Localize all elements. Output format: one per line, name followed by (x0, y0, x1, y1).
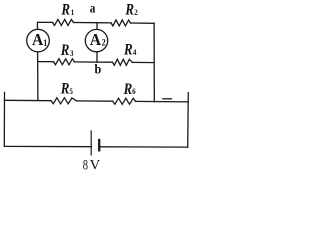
wire inner right vertical (153, 23, 155, 102)
resistor R6 (113, 98, 136, 104)
wire R6 to outer right vertical (136, 100, 189, 103)
wire node b to R4 (97, 61, 112, 63)
label R5 (60, 80, 73, 98)
resistor R2 (111, 20, 131, 26)
wire R4 to inner right vertical (133, 61, 155, 63)
svg-text:R: R (123, 81, 133, 99)
wire outer left vertical with stub above R5 row (3, 92, 5, 146)
node b tick up to ammeter A2 bottom (96, 52, 98, 62)
svg-text:R: R (60, 42, 70, 60)
wire battery negative plate to bottom right (99, 146, 188, 148)
wire A1 bottom through R3 row down to R5 row (37, 52, 39, 101)
wire top-left corner to A1 and top rail left segment (37, 22, 52, 29)
resistor R3 (54, 59, 75, 65)
svg-text:R: R (61, 1, 71, 19)
svg-text:A: A (90, 29, 101, 49)
svg-text:A: A (32, 30, 43, 50)
svg-text:4: 4 (133, 47, 137, 57)
ammeter A1 circle (27, 29, 50, 52)
wire R3 to node b (75, 61, 98, 63)
minus sign polarity mark (163, 98, 172, 100)
label A2 (90, 29, 106, 49)
label R3 (60, 42, 74, 60)
wire bottom left to battery positive plate (4, 145, 91, 147)
svg-text:R: R (60, 80, 70, 98)
label A1 (32, 30, 47, 50)
svg-text:b: b (95, 61, 102, 77)
svg-text:5: 5 (69, 86, 73, 96)
wire mid rail left segment (38, 61, 54, 63)
label 8 V battery value (83, 157, 101, 174)
resistor R4 (112, 59, 132, 65)
resistor R5 (51, 98, 77, 104)
ammeter A2 circle (85, 29, 107, 51)
svg-text:1: 1 (43, 37, 47, 48)
label R6 (123, 81, 136, 99)
svg-text:1: 1 (71, 7, 75, 17)
wire R1 to node a (74, 22, 98, 24)
svg-text:V: V (90, 158, 101, 174)
label R2 (125, 1, 138, 19)
svg-text:8: 8 (83, 157, 88, 173)
wire outer right vertical with stub above R6 row (187, 93, 190, 147)
svg-text:3: 3 (70, 48, 74, 58)
label R1 (61, 1, 75, 19)
node a tick down to ammeter A2 (96, 23, 98, 30)
svg-text:R: R (123, 41, 133, 59)
wire R5 row left segment from outer left (5, 99, 52, 101)
svg-text:2: 2 (134, 7, 138, 17)
battery short plate (negative) (98, 140, 100, 150)
svg-text:2: 2 (102, 37, 107, 48)
resistor R1 (53, 19, 74, 25)
wire R5 to R6 (77, 100, 113, 102)
wire node a to R2 (97, 22, 111, 24)
battery long plate (positive) (90, 131, 92, 155)
wire R2 to top-right corner (131, 22, 155, 24)
svg-text:a: a (90, 0, 96, 15)
label R4 (123, 41, 136, 59)
svg-text:R: R (125, 1, 135, 19)
svg-text:6: 6 (132, 86, 136, 96)
